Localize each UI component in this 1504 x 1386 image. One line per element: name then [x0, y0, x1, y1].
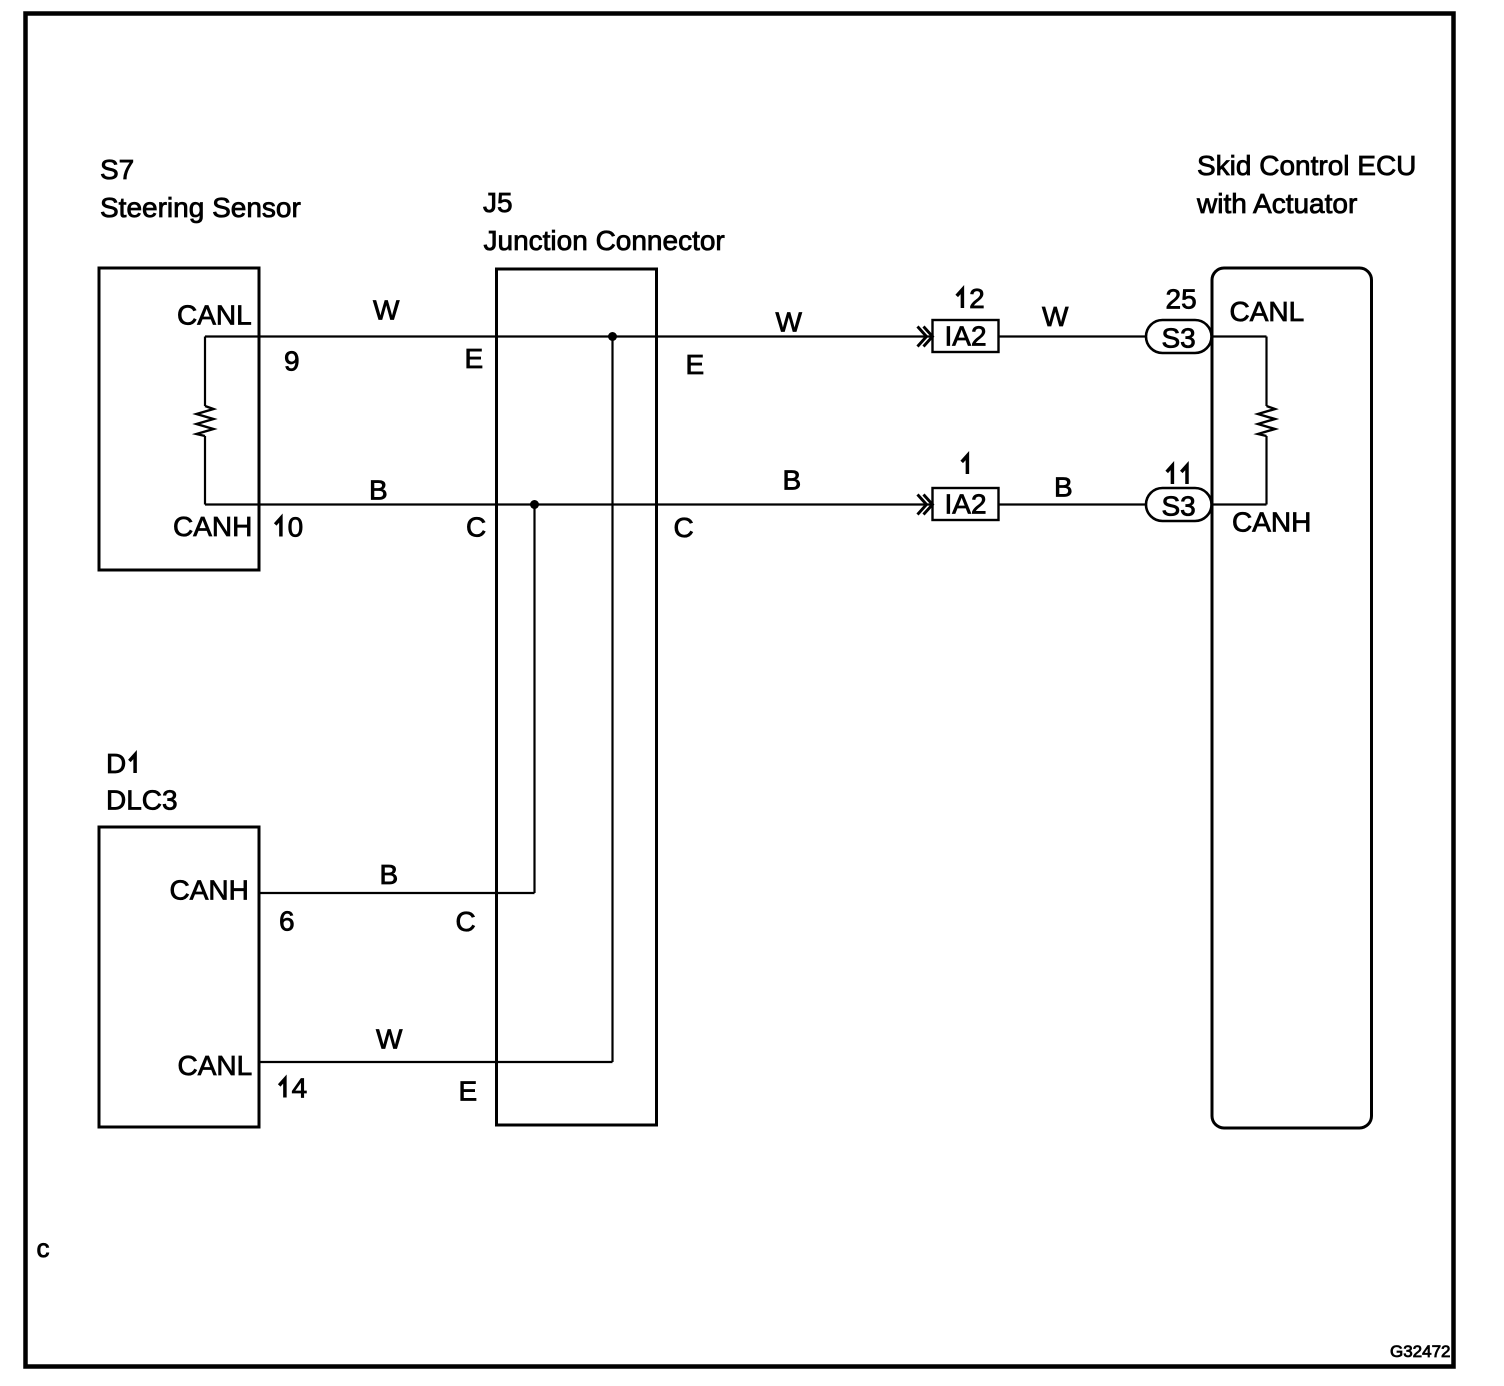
wire color label B (D1 to J5): [380, 859, 399, 890]
svg-text:W: W: [1042, 301, 1069, 332]
pin CANH of D1: [170, 875, 249, 906]
svg-text:C: C: [466, 512, 486, 543]
pin C label on J5 bottom wire: [456, 906, 476, 937]
connector S3 top (pin 25): [1146, 320, 1212, 354]
figure number G32472: [1390, 1342, 1451, 1361]
resistor branch wire in S7: [204, 337, 206, 505]
junction connector J5 box: [497, 269, 657, 1125]
svg-text:B: B: [783, 465, 802, 496]
wire W from S7 CANL to IA2: [205, 335, 933, 337]
pin 11 label: [1167, 466, 1187, 484]
svg-text:IA2: IA2: [945, 321, 987, 352]
wire color label W: [373, 295, 400, 326]
svg-text:0: 0: [288, 512, 304, 543]
junction connector J5 label: [483, 187, 725, 256]
pin CANL of ECU: [1230, 296, 1305, 327]
svg-text:B: B: [1054, 472, 1073, 503]
wire B from IA2 to S3 (bottom): [999, 503, 1147, 505]
svg-text:IA2: IA2: [945, 489, 987, 520]
connector IA2 top (pin 12): [933, 320, 999, 352]
pin E label on J5 (right): [686, 349, 705, 380]
svg-text:2: 2: [969, 283, 985, 314]
pin E label on J5 (left): [465, 343, 484, 374]
svg-text:with Actuator: with Actuator: [1196, 188, 1357, 219]
svg-text:6: 6: [279, 906, 295, 937]
pin 1 label: [962, 456, 968, 474]
svg-text:Steering Sensor: Steering Sensor: [100, 192, 301, 223]
svg-text:G32472: G32472: [1390, 1342, 1451, 1361]
wire color label B (before IA2 bottom): [783, 465, 802, 496]
svg-text:4: 4: [292, 1073, 308, 1104]
svg-text:CANL: CANL: [177, 300, 252, 331]
junction node dot on B wire: [530, 500, 539, 509]
footnote c: [37, 1233, 50, 1263]
DLC3 connector D1 box: [99, 827, 259, 1127]
pin 14 label: [279, 1073, 307, 1104]
svg-text:CANL: CANL: [1230, 296, 1305, 327]
wire color label B: [369, 475, 388, 506]
svg-text:C: C: [674, 512, 694, 543]
wire B from S7 CANH to IA2: [205, 503, 933, 505]
svg-text:CANL: CANL: [178, 1050, 253, 1081]
svg-text:DLC3: DLC3: [106, 785, 178, 816]
svg-text:c: c: [37, 1233, 50, 1263]
pin 6 label: [279, 906, 295, 937]
svg-text:W: W: [776, 307, 803, 338]
svg-text:S3: S3: [1162, 491, 1196, 522]
pin 25 label: [1166, 284, 1197, 315]
wire color label W (D1 to J5): [376, 1024, 403, 1055]
pin 12 label: [957, 283, 985, 314]
svg-text:E: E: [465, 343, 484, 374]
wire from B junction down to DLC3 CANH: [259, 505, 535, 894]
connector IA2 bottom (pin 1): [933, 488, 999, 520]
svg-text:CANH: CANH: [1232, 507, 1311, 538]
svg-text:CANH: CANH: [173, 511, 252, 542]
steering sensor S7 label: [100, 154, 301, 223]
svg-text:E: E: [686, 349, 705, 380]
pin 9 label: [284, 346, 300, 377]
svg-text:J5: J5: [483, 187, 513, 218]
skid control ECU box: [1212, 268, 1372, 1128]
connector S7 box: [99, 268, 259, 570]
svg-text:B: B: [369, 475, 388, 506]
pin E label on J5 bottom wire: [459, 1076, 478, 1107]
wire color label B (after IA2 bottom): [1054, 472, 1073, 503]
svg-text:S7: S7: [100, 154, 134, 185]
resistor (terminating) in S7: [197, 406, 214, 436]
pin CANL of S7: [177, 300, 252, 331]
wire color label W (before IA2 top): [776, 307, 803, 338]
svg-text:B: B: [380, 859, 399, 890]
wire CANL inside ECU: [1211, 337, 1267, 407]
svg-text:W: W: [373, 295, 400, 326]
svg-text:E: E: [459, 1076, 478, 1107]
svg-text:Junction Connector: Junction Connector: [484, 225, 725, 256]
terminating resistor in ECU: [1258, 406, 1275, 436]
wire color label W (after IA2 top): [1042, 301, 1069, 332]
wire W from IA2 to S3 (top): [999, 335, 1147, 337]
pin C label on J5 (right): [674, 512, 694, 543]
pin C label on J5 (left): [466, 512, 486, 543]
svg-text:S3: S3: [1162, 323, 1196, 354]
shield chevron into IA2 bottom: [918, 495, 933, 515]
pin 10 label: [275, 512, 303, 543]
DLC3 D1 label: [106, 748, 178, 816]
svg-text:25: 25: [1166, 284, 1197, 315]
svg-text:9: 9: [284, 346, 300, 377]
connector S3 bottom (pin 11): [1146, 488, 1212, 522]
svg-text:Skid Control ECU: Skid Control ECU: [1197, 150, 1416, 181]
skid control ECU label: [1196, 150, 1416, 219]
svg-text:D: D: [106, 748, 126, 779]
svg-text:C: C: [456, 906, 476, 937]
pin CANL of D1: [178, 1050, 253, 1081]
svg-text:W: W: [376, 1024, 403, 1055]
junction node dot on W wire: [608, 332, 617, 341]
shield chevron into IA2 top: [918, 327, 933, 347]
wire from W junction down to DLC3 CANL: [259, 337, 613, 1063]
svg-text:CANH: CANH: [170, 875, 249, 906]
wire CANH inside ECU: [1211, 436, 1267, 505]
pin CANH of ECU: [1232, 507, 1311, 538]
pin CANH of S7: [173, 511, 252, 542]
